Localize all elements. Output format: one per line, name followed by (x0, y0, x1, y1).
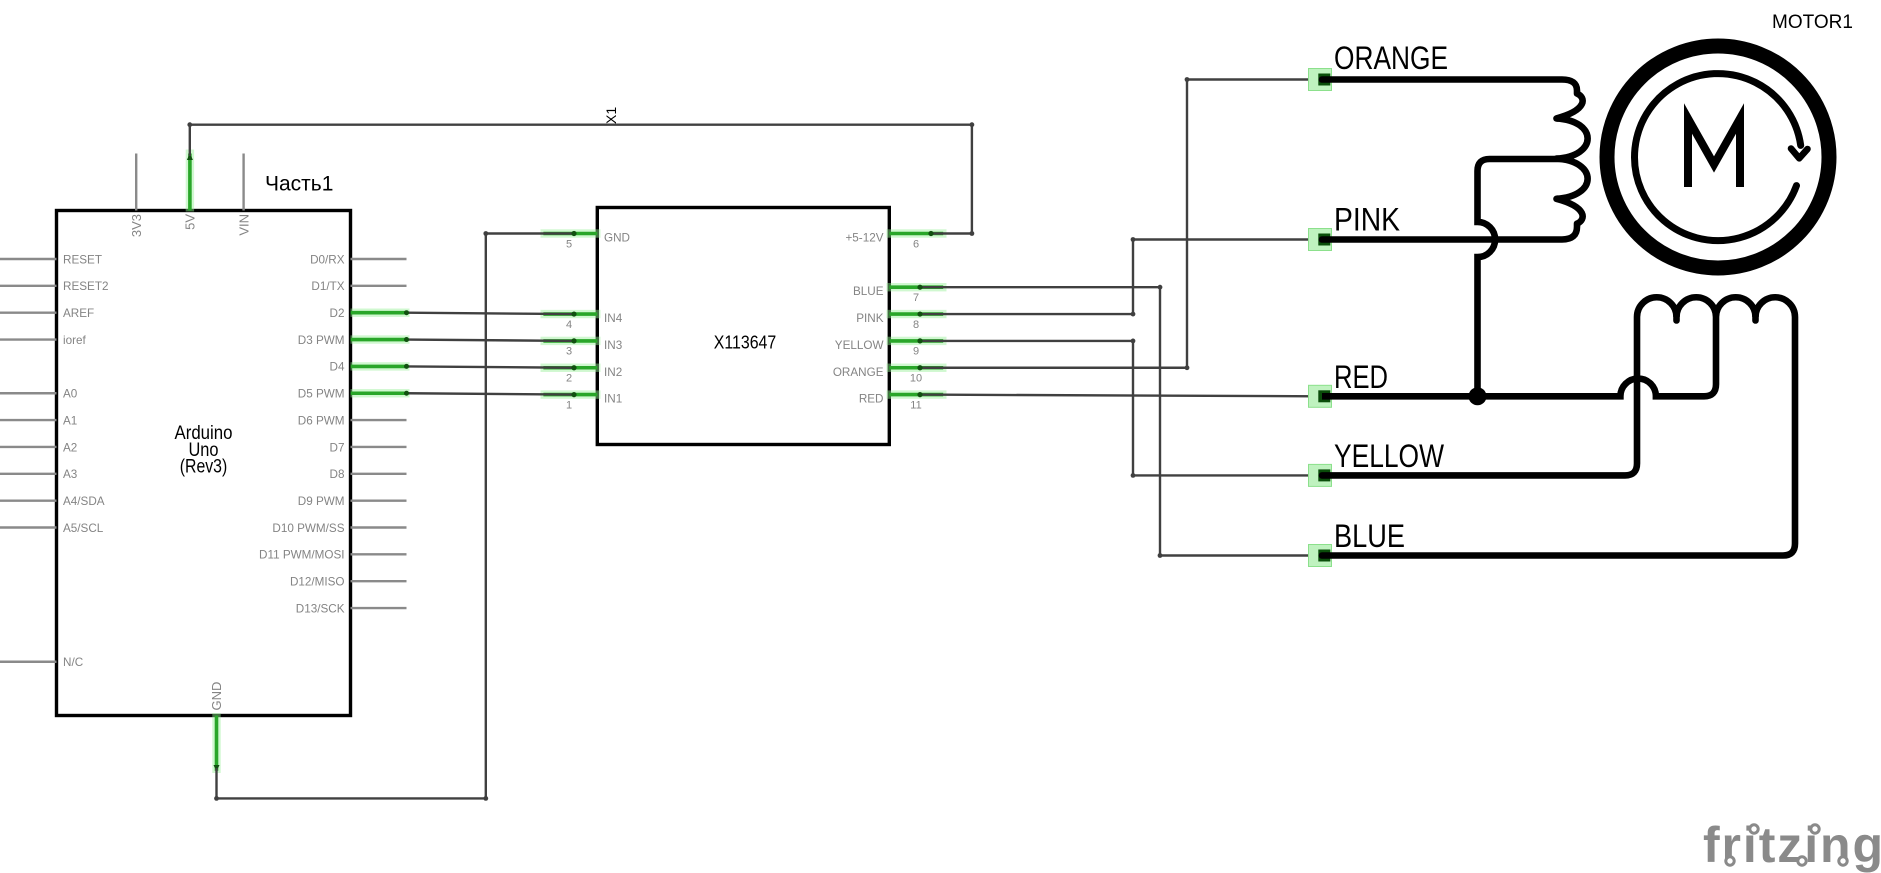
svg-text:5V: 5V (183, 214, 198, 230)
svg-text:ioref: ioref (63, 334, 86, 347)
svg-text:1: 1 (566, 399, 572, 411)
wire driver YELLOW to motor YELLOW (920, 341, 1318, 476)
svg-text:D13/SCK: D13/SCK (296, 602, 345, 615)
pin D8 (Arduino right) (351, 473, 407, 475)
wire driver BLUE to motor BLUE (920, 287, 1318, 555)
svg-text:RED: RED (1334, 359, 1388, 395)
pin 7 BLUE (X113647 right) (887, 283, 947, 291)
svg-text:D10 PWM/SS: D10 PWM/SS (272, 522, 344, 535)
wire ORANGE + motor winding 1 + wire PINK (1322, 80, 1588, 240)
wire D2-IN4 (407, 313, 575, 314)
pin 5 GND (X113647 left) (541, 229, 601, 237)
svg-text:9: 9 (913, 346, 919, 358)
pin D0/RX (Arduino right) (351, 258, 407, 260)
pin ioref (Arduino left) (0, 338, 57, 340)
wire driver PINK to motor PINK (920, 240, 1318, 315)
winding 1 loop cusp tips (1554, 115, 1561, 122)
driver module X113647 body (597, 208, 889, 445)
pin 8 PINK (X113647 right) (887, 310, 947, 318)
pin GND (Arduino bottom) (212, 713, 220, 773)
svg-text:D9 PWM: D9 PWM (298, 495, 345, 508)
wire YELLOW + motor winding 2 + wire BLUE (1322, 297, 1795, 555)
svg-text:D2: D2 (330, 307, 345, 320)
svg-text:PINK: PINK (1334, 202, 1400, 238)
wire D3-IN3 (407, 340, 575, 341)
pin 5V (Arduino top) (186, 150, 194, 212)
svg-text:VIN: VIN (236, 214, 251, 236)
svg-text:10: 10 (910, 373, 922, 385)
svg-text:8: 8 (913, 319, 919, 331)
wire D4-IN2 (407, 366, 575, 367)
svg-text:YELLOW: YELLOW (835, 339, 884, 352)
pin 10 ORANGE (X113647 right) (887, 364, 947, 372)
pin 2 IN2 (X113647 left) (541, 364, 601, 372)
pin D12/MISO (Arduino right) (351, 580, 407, 582)
pin D6 PWM (Arduino right) (351, 419, 407, 421)
svg-text:D0/RX: D0/RX (310, 253, 345, 266)
pin D1/TX (Arduino right) (351, 285, 407, 287)
svg-text:A3: A3 (63, 468, 77, 481)
pin 1 IN1 (X113647 left) (541, 390, 601, 398)
svg-text:11: 11 (910, 399, 921, 411)
pin 11 RED (X113647 right) (887, 390, 947, 398)
svg-text:3V3: 3V3 (129, 214, 144, 237)
svg-text:YELLOW: YELLOW (1334, 438, 1445, 474)
winding 2 loop cusps (1673, 314, 1680, 321)
svg-text:RESET: RESET (63, 253, 102, 266)
svg-text:D12/MISO: D12/MISO (290, 576, 345, 589)
svg-text:D8: D8 (330, 468, 345, 481)
svg-text:3: 3 (566, 346, 572, 358)
pin A5/SCL (Arduino left) (0, 526, 57, 528)
wire driver ORANGE to motor ORANGE (920, 80, 1318, 368)
pin RESET (Arduino left) (0, 258, 57, 260)
svg-text:A2: A2 (63, 441, 77, 454)
junction RED common node (1469, 387, 1487, 405)
pin D9 PWM (Arduino right) (351, 499, 407, 501)
svg-text:6: 6 (913, 238, 919, 250)
wire winding-1 center tap to RED (hops PINK) (1478, 159, 1571, 394)
svg-text:IN1: IN1 (604, 393, 622, 406)
pin D10 PWM/SS (Arduino right) (351, 526, 407, 528)
pin D11 PWM/MOSI (Arduino right) (351, 553, 407, 555)
pin A0 (Arduino left) (0, 392, 57, 394)
wire driver RED to motor RED (920, 395, 1318, 397)
Arduino Uno (Rev3) module body Часть1 (57, 211, 351, 716)
motor MOTOR1 arrow head (1791, 149, 1808, 159)
terminal MOTOR1 ORANGE (1309, 69, 1332, 91)
pin A4/SDA (Arduino left) (0, 499, 57, 501)
svg-text:ORANGE: ORANGE (833, 366, 884, 379)
pin D13/SCK (Arduino right) (351, 607, 407, 609)
pin N/C (Arduino left) (0, 661, 57, 663)
svg-text:MOTOR1: MOTOR1 (1772, 12, 1853, 33)
pin D4 (Arduino right) (351, 362, 410, 370)
terminal MOTOR1 BLUE (1309, 545, 1332, 567)
pin 3V3 (Arduino top) (135, 154, 137, 211)
wire X1 (5V to +5-12V) (190, 125, 972, 234)
svg-text:IN2: IN2 (604, 366, 622, 379)
svg-text:D7: D7 (330, 441, 345, 454)
svg-text:ORANGE: ORANGE (1334, 40, 1448, 76)
svg-text:RESET2: RESET2 (63, 280, 108, 293)
motor MOTOR1 letter M (1688, 119, 1740, 188)
wire D5-IN1 (407, 393, 575, 394)
pin D2 (Arduino right) (351, 309, 410, 317)
svg-text:D4: D4 (330, 361, 345, 374)
svg-text:IN4: IN4 (604, 312, 623, 325)
pin 4 IN4 (X113647 left) (541, 310, 601, 318)
svg-text:GND: GND (604, 232, 630, 245)
svg-text:BLUE: BLUE (853, 285, 884, 298)
pin A3 (Arduino left) (0, 473, 57, 475)
wire Arduino GND to driver GND (217, 234, 575, 799)
svg-text:X113647: X113647 (714, 332, 777, 353)
svg-text:PINK: PINK (856, 312, 883, 325)
svg-text:A0: A0 (63, 388, 78, 401)
svg-text:7: 7 (913, 292, 919, 304)
pin AREF (Arduino left) (0, 312, 57, 314)
motor MOTOR1 outer circle (1607, 46, 1829, 268)
svg-text:D11 PWM/MOSI: D11 PWM/MOSI (259, 549, 345, 562)
svg-text:N/C: N/C (63, 656, 83, 669)
pin 3 IN3 (X113647 left) (541, 337, 601, 345)
svg-text:X1: X1 (603, 107, 619, 124)
motor MOTOR1 rotation arrow arc (1635, 74, 1801, 241)
terminal MOTOR1 YELLOW (1309, 464, 1332, 486)
svg-text:(Rev3): (Rev3) (180, 457, 228, 478)
pin RESET2 (Arduino left) (0, 285, 57, 287)
pin A1 (Arduino left) (0, 419, 57, 421)
pin A2 (Arduino left) (0, 446, 57, 448)
svg-text:Часть1: Часть1 (265, 173, 333, 196)
svg-text:D1/TX: D1/TX (311, 280, 344, 293)
svg-text:4: 4 (566, 319, 572, 331)
pin D3 PWM (Arduino right) (351, 335, 410, 343)
svg-text:A4/SDA: A4/SDA (63, 495, 105, 508)
terminal MOTOR1 PINK (1309, 229, 1332, 251)
svg-text:2: 2 (566, 373, 572, 385)
svg-text:+5-12V: +5-12V (845, 232, 883, 245)
svg-text:D5 PWM: D5 PWM (298, 388, 345, 401)
svg-text:A5/SCL: A5/SCL (63, 522, 104, 535)
svg-text:GND: GND (209, 682, 224, 711)
svg-text:AREF: AREF (63, 307, 94, 320)
pin 9 YELLOW (X113647 right) (887, 337, 947, 345)
pin D7 (Arduino right) (351, 446, 407, 448)
pin D5 PWM (Arduino right) (351, 389, 410, 397)
svg-text:A1: A1 (63, 414, 77, 427)
svg-text:D6 PWM: D6 PWM (298, 414, 345, 427)
svg-text:RED: RED (859, 393, 884, 406)
svg-text:5: 5 (566, 238, 572, 250)
wire RED to winding-2 center tap (hops YELLOW riser) (1322, 317, 1716, 396)
terminal MOTOR1 RED (1309, 385, 1332, 407)
svg-text:BLUE: BLUE (1334, 518, 1405, 554)
svg-text:IN3: IN3 (604, 339, 622, 352)
svg-text:D3 PWM: D3 PWM (298, 334, 345, 347)
pin VIN (Arduino top) (242, 154, 244, 211)
pin 6 +5-12V (X113647 right) (887, 229, 947, 237)
